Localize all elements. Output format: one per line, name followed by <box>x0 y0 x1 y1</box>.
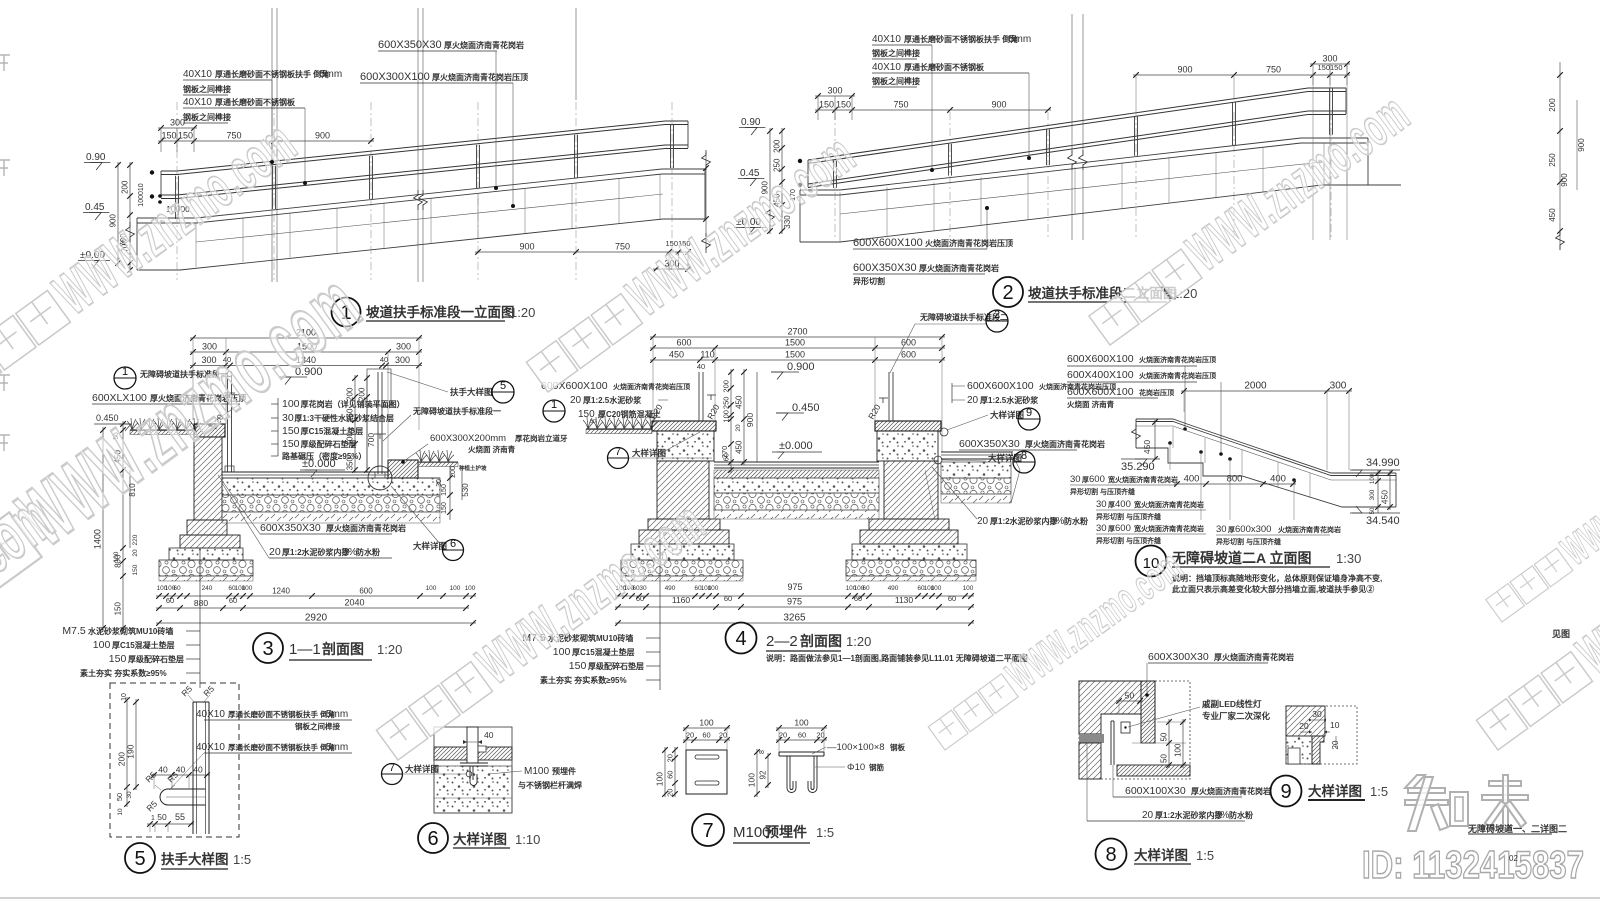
svg-text:900: 900 <box>1577 138 1586 152</box>
grass planting left section 3 <box>130 429 196 431</box>
svg-text:20: 20 <box>269 546 281 558</box>
svg-text:150: 150 <box>109 653 127 665</box>
svg-text:40X10: 40X10 <box>196 709 225 720</box>
left handrail post section 3 <box>227 376 229 472</box>
svg-text:厚火烧面济南青花岗岩: 厚火烧面济南青花岗岩 <box>1025 439 1105 449</box>
svg-text:厚1:3干硬性水泥砂浆结合层: 厚1:3干硬性水泥砂浆结合层 <box>294 413 394 423</box>
svg-text:50: 50 <box>1370 507 1376 514</box>
svg-text:钢板之间榫接: 钢板之间榫接 <box>183 84 231 94</box>
svg-text:R5: R5 <box>143 769 158 784</box>
walkway layers section 4 <box>714 470 879 478</box>
hatch below gray bar section 8 <box>1079 743 1101 779</box>
svg-text:100: 100 <box>1174 743 1183 757</box>
right handrail post section 3 <box>377 372 379 474</box>
svg-text:5%: 5% <box>342 546 357 558</box>
svg-text:40X10: 40X10 <box>872 34 901 45</box>
svg-text:60: 60 <box>724 594 732 603</box>
svg-text:ID: 1132415837: ID: 1132415837 <box>1362 844 1584 887</box>
svg-text:50: 50 <box>1160 732 1169 741</box>
right wall footing steps section 4 <box>869 519 949 530</box>
svg-text:1—1: 1—1 <box>289 641 321 658</box>
dim chain top-left drawing 2: 300 <box>815 95 855 97</box>
section 3: 1-1 cross-section <box>62 328 568 689</box>
svg-text:无障碍坡道二A 立面图: 无障碍坡道二A 立面图 <box>1171 550 1311 566</box>
svg-text:此立面只表示高差变化较大部分挡墙立面,坡道扶手参见②: 此立面只表示高差变化较大部分挡墙立面,坡道扶手参见② <box>1172 584 1374 594</box>
svg-text:专业厂家二次深化: 专业厂家二次深化 <box>1202 711 1271 721</box>
svg-text:50: 50 <box>115 793 124 801</box>
svg-text:厚火烧面济南青花岗岩: 厚火烧面济南青花岗岩 <box>1191 786 1271 796</box>
svg-text:异形切割 与压顶齐缝: 异形切割 与压顶齐缝 <box>1216 537 1281 546</box>
svg-text:600X400X100: 600X400X100 <box>1067 369 1134 381</box>
material notes bottom-left section 4 <box>659 530 661 690</box>
svg-text:20: 20 <box>132 549 139 557</box>
svg-text:250: 250 <box>722 397 731 410</box>
title 6 bubble <box>418 823 448 853</box>
svg-text:900: 900 <box>1560 173 1569 187</box>
section line drawing 1 <box>575 8 577 100</box>
section 4: 2-2 cross-section <box>522 309 1116 690</box>
svg-text:7: 7 <box>702 820 713 842</box>
svg-text:3265: 3265 <box>783 613 806 624</box>
channel figure section 7 <box>779 751 824 753</box>
right vertical dims section 10 <box>1377 470 1379 513</box>
left vertical dim 900 drawing 1 <box>117 162 119 266</box>
svg-text:厚花岗岩立道牙: 厚花岗岩立道牙 <box>515 433 568 443</box>
svg-text:60: 60 <box>229 596 237 605</box>
svg-text:30: 30 <box>282 412 294 424</box>
svg-text:350: 350 <box>346 456 355 470</box>
section 9: detail drawing 1:5 (stone joint) <box>1271 706 1389 807</box>
svg-text:600X600X100: 600X600X100 <box>1067 386 1134 398</box>
svg-text:大样详图: 大样详图 <box>1308 783 1362 799</box>
left vertical dims section 5 <box>126 697 128 807</box>
svg-text:10: 10 <box>121 693 128 701</box>
svg-text:20: 20 <box>666 754 675 762</box>
svg-text:50: 50 <box>1125 691 1135 701</box>
M100 embed circle right post <box>368 466 392 490</box>
svg-text:大样详图: 大样详图 <box>632 448 666 458</box>
svg-text:40X10: 40X10 <box>196 742 225 753</box>
svg-text:60: 60 <box>862 585 870 592</box>
title 9 bubble <box>1271 776 1302 807</box>
svg-text:30: 30 <box>1312 709 1322 719</box>
svg-text:600X600X100: 600X600X100 <box>967 380 1034 392</box>
svg-text:100: 100 <box>699 718 713 728</box>
svg-text:30: 30 <box>1096 499 1107 510</box>
section 5: handrail large-scale detail <box>110 683 352 873</box>
section 6: detail drawing 1:10 <box>382 727 583 853</box>
callout detail 7 bubble section 6 <box>382 764 403 785</box>
svg-text:异形切割 与压顶齐缝: 异形切割 与压顶齐缝 <box>1070 487 1135 496</box>
svg-text:厚通长磨砂面不锈钢板: 厚通长磨砂面不锈钢板 <box>904 62 985 72</box>
title 5 bubble <box>125 843 155 873</box>
svg-text:火烧面济南青花岗岩压顶: 火烧面济南青花岗岩压顶 <box>1139 371 1216 380</box>
svg-text:450: 450 <box>1142 440 1152 454</box>
svg-text:20: 20 <box>967 395 979 406</box>
svg-text:100: 100 <box>963 585 974 592</box>
break line pair drawing 2 <box>1071 14 1073 156</box>
svg-text:火烧面 济南青: 火烧面 济南青 <box>1067 399 1115 409</box>
svg-text:无障碍坡道一、二详图二: 无障碍坡道一、二详图二 <box>1467 823 1567 834</box>
central sunken walkway slab section 4 <box>714 461 879 463</box>
svg-text:60: 60 <box>702 731 710 740</box>
svg-text:100: 100 <box>282 398 300 410</box>
svg-text:1500: 1500 <box>785 350 805 360</box>
dim chain top-left drawing 1: 300 <box>158 127 197 129</box>
svg-text:600x300: 600x300 <box>1235 524 1271 535</box>
svg-text:厚1:2水泥砂浆内掺: 厚1:2水泥砂浆内掺 <box>1155 810 1223 820</box>
hatched wall top-left section 8 <box>1079 681 1141 734</box>
svg-text:900: 900 <box>519 242 534 252</box>
title 1 bubble <box>332 298 361 327</box>
svg-text:40X10: 40X10 <box>183 97 212 108</box>
svg-text:5mm: 5mm <box>1009 34 1031 45</box>
svg-text:厚通长磨砂面不锈钢板扶手 倒角: 厚通长磨砂面不锈钢板扶手 倒角 <box>228 742 335 752</box>
right footing pad section 4 <box>852 544 967 560</box>
svg-text:1:5: 1:5 <box>1370 784 1388 799</box>
svg-text:扶手大样图: 扶手大样图 <box>450 387 493 397</box>
svg-text:20: 20 <box>666 789 675 797</box>
svg-text:0.45: 0.45 <box>85 202 105 213</box>
svg-text:60: 60 <box>166 596 174 605</box>
svg-text:8: 8 <box>1105 844 1116 866</box>
svg-text:30: 30 <box>1070 474 1081 485</box>
svg-text:600: 600 <box>676 338 691 348</box>
svg-text:800: 800 <box>1227 474 1243 485</box>
svg-text:异形切割: 异形切割 <box>853 276 885 286</box>
svg-text:40X10: 40X10 <box>872 62 901 73</box>
ramp bottom stepped edge section 10 <box>1136 448 1396 507</box>
svg-text:34.990: 34.990 <box>1366 457 1400 469</box>
watermark streak A3 through section 3 <box>0 256 378 673</box>
svg-text:厚C20钢筋混凝土: 厚C20钢筋混凝土 <box>598 409 661 419</box>
logo glyph mo <box>1489 781 1521 786</box>
right wall coping section 4 (hatched) <box>875 421 941 431</box>
dim 50 section 8 <box>1116 700 1143 702</box>
left wall footing steps section 4 <box>648 519 720 530</box>
dim chain top-right drawing 2: 900 750 150 150 <box>1133 74 1350 76</box>
svg-text:100: 100 <box>426 585 437 592</box>
svg-text:20: 20 <box>735 424 742 432</box>
svg-text:450: 450 <box>669 350 684 360</box>
walkway slab section 3 (600X350X30) <box>222 471 388 473</box>
svg-text:110: 110 <box>700 350 714 360</box>
wall right edge drawing 2 <box>1367 138 1369 185</box>
svg-text:R20: R20 <box>705 402 722 421</box>
level 0.900 marker section 3 <box>279 377 291 385</box>
svg-text:100: 100 <box>450 585 461 592</box>
svg-text:6: 6 <box>450 538 456 550</box>
svg-text:600: 600 <box>901 350 916 360</box>
svg-text:1:20: 1:20 <box>377 642 402 657</box>
svg-text:素土夯实 夯实系数≥95%: 素土夯实 夯实系数≥95% <box>540 675 627 685</box>
plate dims top section 7 <box>683 727 730 729</box>
zigzag on left dim drawing 1 <box>126 222 135 242</box>
svg-text:厚1:2.5水泥砂浆: 厚1:2.5水泥砂浆 <box>583 395 642 405</box>
right dim chain near kerb section 3 <box>449 466 451 520</box>
svg-text:600X100X30: 600X100X30 <box>1125 785 1186 797</box>
svg-text:5mm: 5mm <box>326 709 348 720</box>
svg-text:厚级配碎石垫层: 厚级配碎石垫层 <box>588 661 644 671</box>
post centerline <box>834 112 836 240</box>
svg-text:1:20: 1:20 <box>846 634 871 649</box>
wall cap (double line) drawing 1 <box>137 169 705 218</box>
wall mid joint drawing 2 <box>840 162 1322 214</box>
LED fixture section 8 <box>1121 722 1130 733</box>
svg-text:大样详图: 大样详图 <box>453 831 507 847</box>
vertical bar 40x10 section 5 <box>192 702 194 834</box>
svg-text:大样详图: 大样详图 <box>405 764 439 774</box>
svg-text:厚: 厚 <box>1228 525 1235 534</box>
left wall shaft section 4 (hatched) <box>657 461 709 519</box>
svg-text:600: 600 <box>1115 523 1131 534</box>
M100 embed detail 6 <box>460 762 488 764</box>
left dim chain segments section 3 <box>122 421 124 631</box>
svg-text:0.90: 0.90 <box>741 117 761 128</box>
svg-text:0.90: 0.90 <box>86 152 106 163</box>
grass right of kerb section 3 <box>418 461 458 463</box>
svg-text:厚火烧面济南青花岗岩: 厚火烧面济南青花岗岩 <box>1214 652 1294 662</box>
svg-text:50: 50 <box>157 812 167 822</box>
grass planting left section 4 <box>586 428 652 430</box>
logo glyph zhi <box>1405 775 1425 788</box>
svg-text:975: 975 <box>787 597 802 607</box>
hooks section 7 <box>787 774 796 793</box>
svg-text:钢筋: 钢筋 <box>869 762 884 772</box>
watermark streak A2 upper-left through drawing 1 <box>0 109 309 404</box>
svg-text:厚火烧面济南青花岗岩: 厚火烧面济南青花岗岩 <box>444 40 524 50</box>
leader 1 <box>271 80 273 160</box>
leader dots and verticals section 10 <box>1168 441 1172 445</box>
diagonal in concrete core section 4 <box>663 432 700 452</box>
svg-text:厚火烧面济南青花岗岩: 厚火烧面济南青花岗岩 <box>919 263 999 273</box>
svg-text:厚通长磨砂面不锈钢板扶手 倒角: 厚通长磨砂面不锈钢板扶手 倒角 <box>904 34 1018 44</box>
svg-text:厚1:2水泥砂浆内掺: 厚1:2水泥砂浆内掺 <box>990 516 1058 526</box>
svg-text:2: 2 <box>1002 282 1013 304</box>
svg-text:300: 300 <box>396 342 411 352</box>
bottom stone band section 8 <box>1117 765 1190 776</box>
svg-text:100: 100 <box>722 410 731 423</box>
watermark streak B center <box>518 123 867 400</box>
svg-text:预埋件: 预埋件 <box>552 766 576 776</box>
svg-text:钢板之间榫接: 钢板之间榫接 <box>872 48 920 58</box>
svg-text:与不锈钢栏杆满焊: 与不锈钢栏杆满焊 <box>518 780 582 790</box>
left gravel bed section 4 <box>621 560 743 576</box>
svg-text:9: 9 <box>1280 781 1291 803</box>
watermark streak S right corner sliver <box>1480 421 1600 629</box>
right upper pavement section 4 <box>941 451 1013 453</box>
svg-text:5mm: 5mm <box>320 69 342 80</box>
level 0.900 section 4 <box>771 372 783 380</box>
level 0.450 section 4 <box>776 413 788 421</box>
svg-text:5: 5 <box>500 380 506 392</box>
svg-text:1500: 1500 <box>785 338 805 348</box>
svg-text:种植土护坡: 种植土护坡 <box>458 464 487 472</box>
svg-text:Φ10: Φ10 <box>847 762 865 773</box>
drawing 2: ramp handrail standard segment 2 elevation (top-right) <box>734 14 1586 307</box>
concrete below section 6 <box>434 766 512 813</box>
svg-text:450: 450 <box>1548 208 1557 222</box>
svg-text:750: 750 <box>1266 65 1281 75</box>
svg-text:厚C15混凝土垫层: 厚C15混凝土垫层 <box>572 647 635 657</box>
svg-text:5%: 5% <box>1050 516 1065 527</box>
svg-text:150: 150 <box>178 131 193 141</box>
svg-text:60: 60 <box>948 594 956 603</box>
svg-text:10: 10 <box>117 808 124 816</box>
svg-text:600X300X100: 600X300X100 <box>360 71 430 83</box>
svg-text:150: 150 <box>578 409 595 420</box>
svg-text:—100×100×8: —100×100×8 <box>827 742 885 753</box>
svg-text:60: 60 <box>798 731 806 740</box>
svg-text:30: 30 <box>436 479 443 487</box>
gray waterproof bar section 8 <box>1079 734 1104 743</box>
svg-text:40: 40 <box>193 765 203 775</box>
bottom dim row C section 3 <box>156 622 476 624</box>
svg-text:270: 270 <box>720 446 729 459</box>
post centerline <box>176 102 178 280</box>
dim chain top-left drawing 1: 150 150 750 900 <box>158 140 374 142</box>
svg-text:900: 900 <box>1177 65 1192 75</box>
section 8: detail drawing 1:5 (LED niche) <box>1079 651 1294 870</box>
dim chain top-right drawing 2: 300 <box>1310 63 1350 65</box>
handrail posts drawing 2 <box>833 161 835 188</box>
svg-text:±0.000: ±0.000 <box>779 440 813 452</box>
bottom dim row C section 4 <box>615 622 974 624</box>
svg-text:2040: 2040 <box>344 598 364 608</box>
break line pair left drawing 1 <box>271 8 273 282</box>
ramp top cap section 10 <box>1136 419 1396 473</box>
post centerline <box>1233 112 1235 240</box>
svg-text:7: 7 <box>389 762 395 774</box>
svg-text:8: 8 <box>759 750 766 754</box>
handrail posts drawing 1 <box>175 176 177 219</box>
svg-text:2: 2 <box>994 309 1000 321</box>
svg-text:3: 3 <box>262 638 273 660</box>
svg-text:火烧面济南青花岗岩压顶: 火烧面济南青花岗岩压顶 <box>1139 355 1216 364</box>
post in detail 6 <box>467 727 478 763</box>
svg-text:1: 1 <box>122 366 128 378</box>
speckled block bottom-left section 9 <box>1286 736 1312 764</box>
channel dims section 7 <box>776 727 827 729</box>
svg-text:厚1:2水泥砂浆内掺: 厚1:2水泥砂浆内掺 <box>282 547 350 557</box>
svg-text:100: 100 <box>93 639 111 651</box>
svg-text:说明：挡墙顶标高随地形变化，总体原则保证墙身净高不变,: 说明：挡墙顶标高随地形变化，总体原则保证墙身净高不变, <box>1172 573 1382 583</box>
svg-text:20: 20 <box>977 516 989 527</box>
post centerline <box>273 102 275 280</box>
svg-text:100: 100 <box>465 585 476 592</box>
svg-text:40: 40 <box>176 765 186 775</box>
right post section 4 <box>888 372 890 421</box>
left edge watermark fragments <box>0 55 10 71</box>
svg-text:40X10: 40X10 <box>183 69 212 80</box>
svg-text:火烧面 济南青: 火烧面 济南青 <box>468 444 516 454</box>
svg-text:钢板: 钢板 <box>890 742 905 752</box>
svg-text:200: 200 <box>346 387 355 401</box>
svg-text:1:20: 1:20 <box>510 305 535 320</box>
material notes bottom-left section 3 <box>199 548 201 688</box>
right wall concrete core section 4 <box>877 431 938 461</box>
ramp panel joints section 10 <box>1172 427 1174 448</box>
svg-text:100: 100 <box>113 551 120 562</box>
svg-text:900: 900 <box>745 413 755 427</box>
svg-text:说明：路面做法参见1—1剖面图,路面铺装参见L11.01: 说明：路面做法参见1—1剖面图,路面铺装参见L11.01 无障碍坡道二平面图 <box>766 653 1028 663</box>
svg-text:600X350X30: 600X350X30 <box>959 438 1020 450</box>
svg-text:50: 50 <box>1160 754 1169 763</box>
svg-text:400: 400 <box>1115 499 1131 510</box>
svg-text:M7.5: M7.5 <box>62 625 86 637</box>
svg-text:600X300X200mm: 600X300X200mm <box>430 433 506 444</box>
svg-text:火烧面济南青花岗岩压顶: 火烧面济南青花岗岩压顶 <box>925 238 1013 248</box>
svg-text:300: 300 <box>1330 381 1347 392</box>
svg-text:防水粉: 防水粉 <box>1064 516 1088 526</box>
svg-text:150: 150 <box>441 502 448 514</box>
post centerline <box>575 102 577 280</box>
retaining wall shaft section 3 (hatched) <box>194 437 222 520</box>
bottom dim row A section 4 <box>615 595 974 597</box>
svg-text:600X300X30: 600X300X30 <box>1148 651 1209 663</box>
svg-text:34.540: 34.540 <box>1366 515 1400 527</box>
dim 2000 300 section 10 <box>1181 390 1352 392</box>
svg-text:40: 40 <box>697 362 705 371</box>
svg-text:0.450: 0.450 <box>792 402 820 414</box>
dim 300 bottom-right drawing 1 <box>653 268 691 270</box>
watermark streak E bottom-center <box>922 542 1192 757</box>
wall panel joints drawing 1 <box>195 222 197 267</box>
title 3 bubble <box>253 633 283 663</box>
svg-text:1:5: 1:5 <box>816 825 834 840</box>
svg-text:6: 6 <box>427 828 438 850</box>
svg-text:02: 02 <box>1509 854 1518 863</box>
hatched block top-left section 9 <box>1286 706 1325 736</box>
svg-text:240: 240 <box>202 585 213 592</box>
upstand stone lines section 8 <box>1110 721 1112 765</box>
svg-text:100: 100 <box>708 585 719 592</box>
watermark streak D top-right <box>1081 83 1421 353</box>
pavement gravel section 3 <box>222 495 440 512</box>
svg-text:600X350X30: 600X350X30 <box>260 522 321 534</box>
svg-text:900: 900 <box>315 131 330 141</box>
svg-text:异形切割 与压顶齐缝: 异形切割 与压顶齐缝 <box>1096 536 1161 545</box>
svg-text:150: 150 <box>282 438 300 450</box>
svg-text:20: 20 <box>570 395 582 406</box>
svg-text:10: 10 <box>1330 720 1340 730</box>
dotted outer box section 8 <box>1079 681 1190 779</box>
svg-text:150: 150 <box>161 131 176 141</box>
svg-text:300: 300 <box>1369 489 1376 500</box>
svg-text:100: 100 <box>242 585 253 592</box>
drawing 1: ramp handrail standard segment 1 elevation (top-left) <box>78 8 711 327</box>
svg-text:大样详图: 大样详图 <box>1134 847 1188 863</box>
svg-text:1160: 1160 <box>672 595 691 605</box>
section 10: accessible ramp 2A elevation <box>1067 353 1570 639</box>
wall footing steps section 3 <box>187 520 227 535</box>
bottom dim row B section 3 <box>156 607 469 609</box>
svg-text:1:5: 1:5 <box>1196 848 1214 863</box>
svg-text:厚1:2.5水泥砂浆: 厚1:2.5水泥砂浆 <box>980 395 1039 405</box>
svg-text:35.290: 35.290 <box>1121 461 1155 473</box>
svg-text:5mm: 5mm <box>326 742 348 753</box>
title 4 bubble <box>726 623 757 654</box>
top handrail drawing 2 <box>808 88 1346 160</box>
left dim chain 1400 section 3 <box>102 427 104 631</box>
svg-text:600: 600 <box>901 338 916 348</box>
svg-text:100: 100 <box>1370 473 1376 484</box>
svg-text:200: 200 <box>358 387 367 401</box>
wall ground line drawing 1 <box>137 219 705 270</box>
dim 400 800 400 section 10 <box>1174 483 1296 485</box>
post centerline <box>671 102 673 280</box>
svg-text:40: 40 <box>484 730 494 740</box>
